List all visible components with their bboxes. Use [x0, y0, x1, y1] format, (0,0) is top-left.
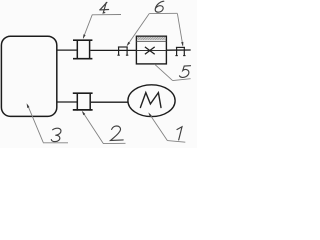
wire top shaft gearbox-to-end — [166, 49, 190, 51]
label 6 right leader — [177, 14, 182, 46]
wire shaft inside gearbox — [136, 50, 166, 52]
label 2 leader line — [83, 112, 104, 143]
gearbox housing 5 — [136, 36, 166, 64]
coupling C2 left flange — [76, 93, 78, 111]
wire bottom shaft rect-to-coupling — [57, 101, 77, 103]
machine body 3 (rounded rectangle) — [1, 36, 56, 116]
wire top shaft coupling-to-gearbox — [90, 49, 136, 51]
coupling C4 left flange — [76, 40, 78, 60]
label 6 shelf line — [149, 12, 177, 14]
label 6 text — [155, 1, 164, 12]
label 4 arrowhead — [83, 34, 86, 39]
label 3 text — [51, 128, 61, 141]
wire bottom shaft coupling-to-motor — [91, 101, 128, 103]
label 5 text — [180, 66, 191, 78]
coupling C2 bottom bar — [73, 109, 93, 111]
label 3 leader line — [28, 105, 44, 143]
label 2 arrowhead — [82, 111, 86, 116]
label 4 text — [100, 2, 109, 13]
coupling C4 top bar — [73, 39, 92, 41]
coupling C2 right flange — [89, 93, 91, 111]
label 2 shelf line — [103, 142, 126, 144]
label 5 shelf line — [173, 79, 191, 81]
label 3 shelf line — [43, 142, 68, 144]
label 1 text — [177, 127, 182, 140]
bearing left legs — [118, 47, 120, 56]
coupling C2 top bar — [73, 92, 93, 94]
label 1 arrowhead — [148, 112, 152, 116]
label 6 left arrowhead — [127, 42, 131, 46]
label 6 left leader — [127, 14, 149, 46]
bearing left feet — [117, 54, 119, 56]
label 1 shelf line — [167, 141, 185, 143]
label 6 right arrowhead — [181, 42, 183, 47]
label 3 arrowhead — [27, 103, 30, 108]
motor M1 ellipse — [128, 85, 175, 117]
coupling C4 right flange — [89, 40, 91, 60]
bearing left (item 6) top cap — [118, 46, 128, 48]
label 4 leader line — [83, 15, 92, 38]
bearing right feet — [175, 55, 177, 57]
gearbox strip bottom line — [136, 40, 166, 42]
label 1 leader line — [149, 114, 167, 141]
bearing right legs — [176, 47, 178, 56]
motor letter M — [140, 93, 161, 108]
gearbox hatched strip — [137, 37, 166, 40]
label 5 leader line — [155, 64, 173, 80]
bearing right (item 6) top cap — [176, 46, 185, 48]
gear cross X — [145, 47, 155, 54]
coupling C4 bottom bar — [73, 58, 92, 60]
wire top shaft segment rect-to-coupling — [57, 49, 77, 51]
label 4 shelf line — [92, 14, 121, 16]
label 2 text — [111, 126, 124, 141]
